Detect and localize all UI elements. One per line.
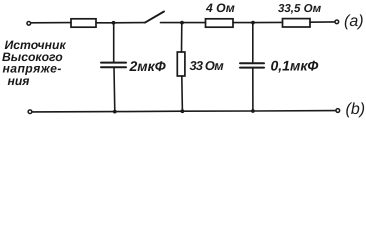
svg-text:(b): (b) bbox=[346, 101, 366, 118]
svg-text:ния: ния bbox=[8, 74, 30, 88]
svg-text:(a): (a) bbox=[344, 13, 364, 30]
svg-text:2мкФ: 2мкФ bbox=[129, 58, 166, 74]
svg-text:33 Ом: 33 Ом bbox=[190, 58, 225, 73]
svg-text:0,1мкФ: 0,1мкФ bbox=[271, 58, 319, 74]
svg-text:4 Ом: 4 Ом bbox=[205, 1, 235, 15]
svg-text:33,5 Ом: 33,5 Ом bbox=[278, 3, 322, 15]
